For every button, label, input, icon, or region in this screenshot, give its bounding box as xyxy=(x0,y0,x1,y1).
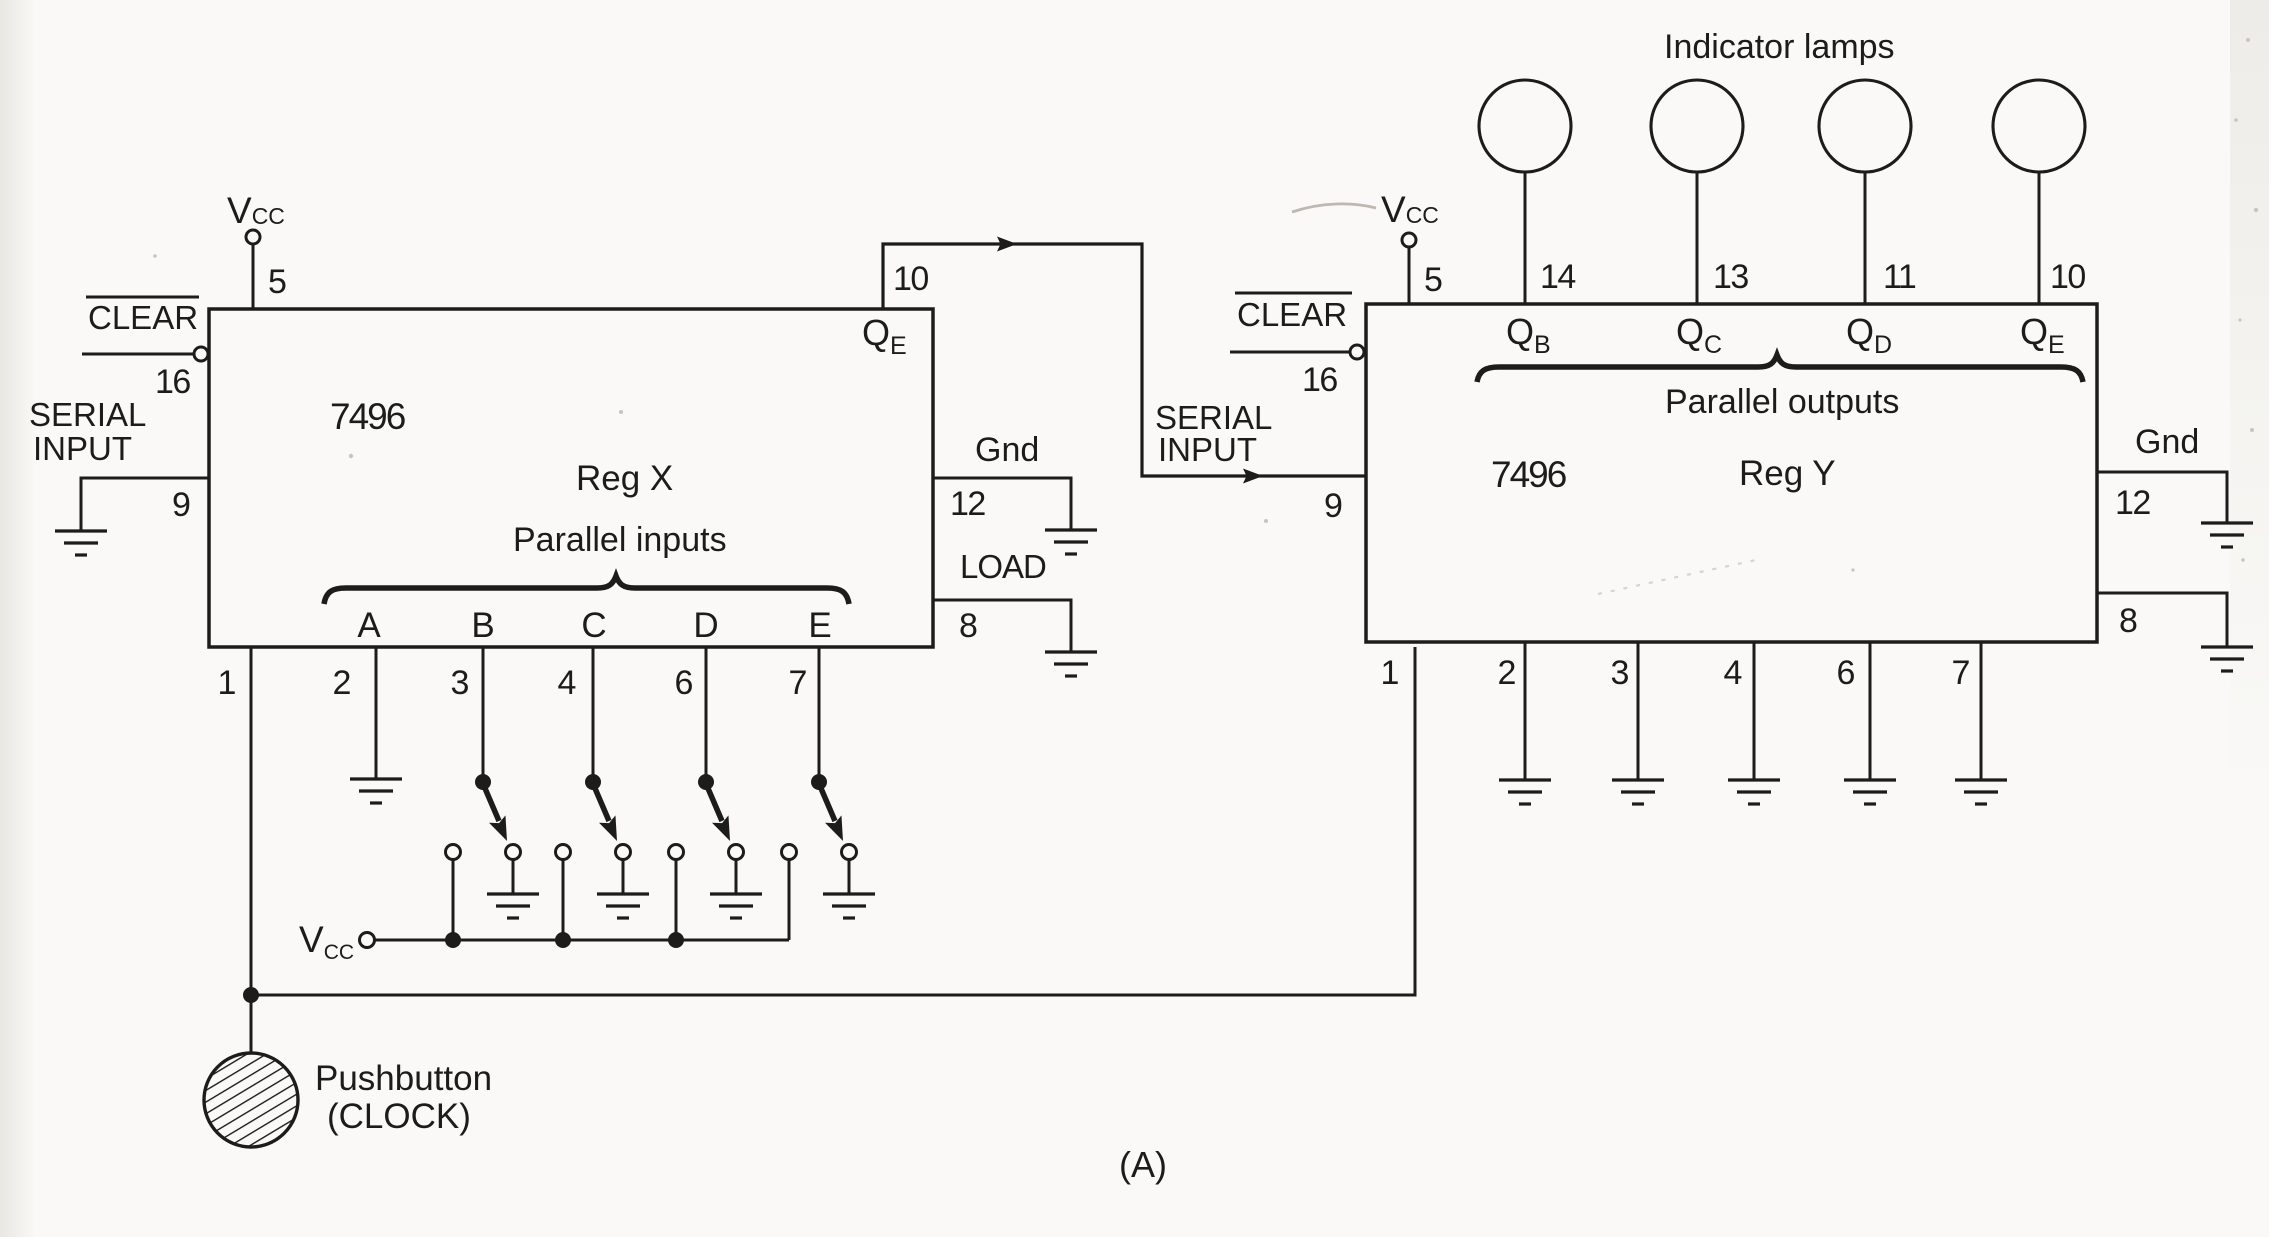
IC U2 7496 Reg Y body xyxy=(1366,304,2097,642)
inversion bubble U1 pin 16 xyxy=(194,347,208,361)
svg-text:16: 16 xyxy=(155,363,190,401)
wire DS2 to U2 pin 13 xyxy=(1696,172,1699,304)
ground G2 at U1 pin 12 xyxy=(1045,530,1097,554)
wire serial input to U1 pin 9 xyxy=(81,478,209,531)
U1 pin 5 wire to Vcc xyxy=(252,244,255,309)
svg-text:Gnd: Gnd xyxy=(975,431,1039,469)
svg-text:VCC: VCC xyxy=(227,190,285,231)
wire U2 pin 6 to ground xyxy=(1869,642,1872,780)
ground G13 at U2 pin 4 xyxy=(1728,780,1780,804)
faint scratch inside U2 xyxy=(1598,560,1756,594)
svg-text:13: 13 xyxy=(1713,258,1748,296)
wire U2 pin 2 to ground xyxy=(1524,642,1527,780)
wire CLEAR to U2 pin 16 xyxy=(1230,351,1349,354)
svg-text:1: 1 xyxy=(218,664,237,702)
wire U2 pin 12 to ground xyxy=(2097,472,2227,523)
svg-text:Gnd: Gnd xyxy=(2135,423,2199,461)
arrowhead on serial wire into U2 pin 9 xyxy=(1243,469,1263,484)
svg-text:Pushbutton: Pushbutton xyxy=(315,1059,492,1098)
wire U2 pin 8 to ground xyxy=(2097,593,2227,647)
svg-text:B: B xyxy=(471,606,494,645)
svg-text:2: 2 xyxy=(333,664,352,702)
wire U1 pin 12 to ground xyxy=(933,478,1071,530)
wire CLEAR to U1 pin 16 xyxy=(82,353,194,356)
inversion bubble U2 pin 16 xyxy=(1350,345,1364,359)
ground G5 at switch S1 xyxy=(487,894,539,918)
ground G6 at switch S2 xyxy=(597,894,649,918)
ground G8 at switch S4 xyxy=(823,894,875,918)
wire DS4 to U2 pin 10 xyxy=(2038,172,2041,304)
svg-text:10: 10 xyxy=(2050,258,2085,296)
svg-text:CLEAR: CLEAR xyxy=(88,299,198,336)
wire U1 pin 10 (QE) to U2 pin 9 serial input xyxy=(883,244,1366,476)
wire S2 ground throw xyxy=(622,859,625,894)
wire U1 pin 7 (input E) to switch S4 xyxy=(818,647,821,778)
svg-text:QC: QC xyxy=(1676,311,1722,359)
ground G11 at U2 pin 2 xyxy=(1499,780,1551,804)
svg-text:7: 7 xyxy=(1952,654,1971,692)
wire U1 pin 3 (input B) to switch S1 xyxy=(482,647,485,778)
svg-text:QD: QD xyxy=(1846,311,1892,359)
svg-text:Parallel inputs: Parallel inputs xyxy=(513,521,727,559)
svg-text:INPUT: INPUT xyxy=(33,430,132,467)
svg-text:4: 4 xyxy=(1724,654,1743,692)
svg-text:CLEAR: CLEAR xyxy=(1237,296,1347,333)
svg-text:11: 11 xyxy=(1883,258,1916,296)
U2 pin 5 wire to Vcc xyxy=(1408,247,1411,304)
junction dot clock node xyxy=(243,987,259,1003)
svg-text:C: C xyxy=(581,606,606,645)
indicator lamp DS4 xyxy=(1993,80,2085,172)
brace over parallel inputs A-E xyxy=(324,576,849,604)
ground G1 at serial input of U1 xyxy=(55,531,107,555)
svg-text:INPUT: INPUT xyxy=(1158,431,1257,468)
wire S1 Vcc throw to Vcc rail xyxy=(452,859,455,940)
wire DS3 to U2 pin 11 xyxy=(1864,172,1867,304)
wire S1 ground throw xyxy=(512,859,515,894)
svg-text:10: 10 xyxy=(893,260,928,298)
wire U1 pin 6 (input D) to switch S3 xyxy=(705,647,708,778)
junction dot rail/S1 xyxy=(445,932,461,948)
switch S1 (input B) xyxy=(446,774,521,860)
svg-text:5: 5 xyxy=(268,263,287,301)
clock wire from junction to U2 pin 1 xyxy=(251,647,1415,995)
svg-text:SERIAL: SERIAL xyxy=(29,396,146,433)
svg-text:Parallel outputs: Parallel outputs xyxy=(1665,383,1899,421)
wire S4 Vcc throw down to Vcc rail corner xyxy=(788,859,791,940)
ground G14 at U2 pin 6 xyxy=(1844,780,1896,804)
svg-text:12: 12 xyxy=(2115,484,2150,522)
svg-text:QB: QB xyxy=(1506,311,1551,359)
wire S4 ground throw xyxy=(848,859,851,894)
wire U1 pin 8 (LOAD) to ground xyxy=(933,600,1071,652)
switch S4 (input E) xyxy=(782,774,857,860)
svg-text:(A): (A) xyxy=(1119,1144,1167,1185)
svg-text:16: 16 xyxy=(1302,361,1337,399)
svg-text:LOAD: LOAD xyxy=(960,548,1046,585)
svg-text:A: A xyxy=(357,606,381,645)
svg-text:VCC: VCC xyxy=(299,919,354,964)
svg-text:QE: QE xyxy=(862,312,907,360)
svg-text:QE: QE xyxy=(2020,311,2065,359)
faint pencil mark above U2 xyxy=(1292,204,1376,212)
ground G3 at U1 pin 8 xyxy=(1045,652,1097,676)
brace under parallel outputs xyxy=(1477,355,2083,382)
svg-text:Reg X: Reg X xyxy=(576,459,673,498)
svg-text:Reg Y: Reg Y xyxy=(1739,454,1836,493)
wire DS1 to U2 pin 14 xyxy=(1524,172,1527,304)
junction dot rail/S3 xyxy=(668,932,684,948)
svg-text:2: 2 xyxy=(1498,654,1517,692)
CLEAR overline (U1) xyxy=(86,296,199,299)
svg-text:Indicator lamps: Indicator lamps xyxy=(1664,28,1895,66)
junction dot rail/S2 xyxy=(555,932,571,948)
svg-text:7496: 7496 xyxy=(330,396,405,437)
pushbutton PB1 (CLOCK) xyxy=(204,1053,298,1147)
IC U1 7496 Reg X body xyxy=(209,309,933,647)
wire U2 pin 3 to ground xyxy=(1637,642,1640,780)
svg-text:9: 9 xyxy=(172,486,191,524)
ground G12 at U2 pin 3 xyxy=(1612,780,1664,804)
switch S2 (input C) xyxy=(556,774,631,860)
indicator lamp DS1 xyxy=(1479,80,1571,172)
svg-text:(CLOCK): (CLOCK) xyxy=(327,1097,471,1136)
Vcc terminal circle on rail xyxy=(360,933,375,948)
svg-text:VCC: VCC xyxy=(1381,189,1439,230)
Vcc terminal circle at U1 pin 5 xyxy=(246,230,260,244)
Vcc rail feeding switches xyxy=(374,939,789,942)
CLEAR overline (U2) xyxy=(1235,292,1352,295)
ground G9 at U2 pin 12 xyxy=(2201,523,2253,547)
arrowhead on QE wire (top run) xyxy=(997,237,1017,252)
ground G7 at switch S3 xyxy=(710,894,762,918)
svg-text:8: 8 xyxy=(2119,602,2138,640)
svg-text:4: 4 xyxy=(558,664,577,702)
svg-text:14: 14 xyxy=(1540,258,1575,296)
svg-text:12: 12 xyxy=(950,485,985,523)
wire U2 pin 4 to ground xyxy=(1753,642,1756,780)
svg-text:D: D xyxy=(693,606,718,645)
wire U1 pin 4 (input C) to switch S2 xyxy=(592,647,595,778)
svg-text:7: 7 xyxy=(789,664,808,702)
wire U1 pin 2 (input A) to ground xyxy=(375,647,378,779)
indicator lamp DS3 xyxy=(1819,80,1911,172)
indicator lamp DS2 xyxy=(1651,80,1743,172)
svg-text:6: 6 xyxy=(675,664,694,702)
svg-text:8: 8 xyxy=(959,607,978,645)
svg-text:1: 1 xyxy=(1381,654,1400,692)
wire S3 Vcc throw to Vcc rail xyxy=(675,859,678,940)
svg-text:6: 6 xyxy=(1837,654,1856,692)
svg-text:3: 3 xyxy=(1611,654,1630,692)
svg-text:9: 9 xyxy=(1324,487,1343,525)
wire U2 pin 7 to ground xyxy=(1980,642,1983,780)
wire S2 Vcc throw to Vcc rail xyxy=(562,859,565,940)
svg-text:7496: 7496 xyxy=(1491,454,1566,495)
switch S3 (input D) xyxy=(669,774,744,860)
ground G4 at U1 pin 2 xyxy=(350,779,402,803)
svg-text:5: 5 xyxy=(1424,261,1443,299)
Vcc terminal circle at U2 pin 5 xyxy=(1402,233,1416,247)
wire U1 pin 1 (clock) down to pushbutton xyxy=(250,647,253,1056)
svg-text:E: E xyxy=(808,606,831,645)
svg-text:3: 3 xyxy=(451,664,470,702)
wire S3 ground throw xyxy=(735,859,738,894)
ground G10 at U2 pin 8 xyxy=(2201,647,2253,671)
ground G15 at U2 pin 7 xyxy=(1955,780,2007,804)
